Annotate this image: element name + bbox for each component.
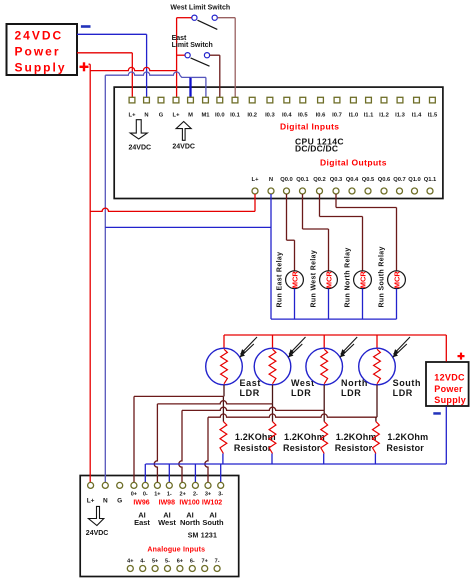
- svg-text:Q1.1: Q1.1: [424, 177, 437, 183]
- svg-text:I0.7: I0.7: [332, 113, 342, 119]
- SM1231 terminal 2-: [192, 482, 198, 488]
- svg-text:Resistor: Resistor: [335, 443, 373, 453]
- PLC input terminal I0.0: [217, 97, 223, 103]
- PLC input terminal L+: [173, 97, 179, 103]
- LDR South (photoresistor): [359, 348, 396, 385]
- svg-text:24VDC: 24VDC: [86, 530, 109, 537]
- svg-text:3+: 3+: [205, 492, 211, 498]
- PLC output terminal Q0.2: [317, 188, 323, 194]
- East limit switch S2 contact A: [185, 53, 190, 58]
- wire: Q0.0 to Run East Relay coil: [286, 194, 288, 240]
- svg-text:Q0.7: Q0.7: [393, 177, 406, 183]
- wire: resistor R2 to 0V rail: [271, 454, 273, 465]
- PLC input terminal L+: [129, 97, 135, 103]
- svg-text:Resistor: Resistor: [234, 443, 272, 453]
- wire: M terminal drop (thick): [189, 77, 191, 97]
- wire: West switch to I0.1: [218, 17, 236, 19]
- resistor R2 1.2KOhm: [269, 422, 276, 454]
- PLC input terminal M1: [203, 97, 209, 103]
- svg-text:Supply: Supply: [15, 61, 67, 75]
- resistor R1 1.2KOhm: [220, 422, 227, 454]
- LDR East (photoresistor): [206, 348, 243, 385]
- light arrows onto East LDR: [241, 337, 258, 354]
- SM1231 terminal 2+: [180, 482, 186, 488]
- wire: +24V branch to switches and L+: [90, 67, 176, 70]
- svg-text:1-: 1-: [167, 492, 172, 498]
- wire: +24V to East switch: [177, 54, 185, 56]
- wire: resistor R3 to 0V rail: [323, 454, 325, 465]
- svg-text:Power: Power: [15, 45, 61, 59]
- 24VDC power supply PS1: [7, 24, 78, 75]
- svg-text:7-: 7-: [215, 558, 220, 564]
- PLC output terminal Q0.4: [349, 188, 355, 194]
- PLC output terminal Q0.7: [397, 188, 403, 194]
- SM1231 terminal L+: [88, 482, 94, 488]
- svg-text:I1.4: I1.4: [412, 113, 422, 119]
- svg-text:7+: 7+: [202, 558, 208, 564]
- svg-text:Q0.1: Q0.1: [296, 177, 309, 183]
- wire: bottom N to 0V rail: [270, 194, 272, 319]
- svg-text:Resistor: Resistor: [283, 443, 321, 453]
- wire: +12V rail: [224, 334, 446, 336]
- wire: North LDR to divider junction: [323, 385, 325, 411]
- svg-text:Run North Relay: Run North Relay: [345, 247, 352, 307]
- LDR North (photoresistor): [306, 348, 343, 385]
- svg-text:Supply: Supply: [434, 395, 466, 405]
- PLC input terminal I1.4: [414, 97, 420, 103]
- svg-text:South: South: [393, 378, 422, 388]
- svg-text:I1.5: I1.5: [428, 113, 438, 119]
- light arrows onto North LDR: [341, 337, 358, 354]
- wire: West LDR to divider junction: [272, 385, 274, 404]
- wire: bottom L+ to +24V rail: [254, 194, 256, 211]
- light arrows onto West LDR: [289, 337, 306, 354]
- PLC input terminal I1.0: [351, 97, 357, 103]
- SM1231 terminal 1-: [166, 482, 172, 488]
- relay coil Run East Relay (MCR): [286, 271, 304, 289]
- svg-text:IW100: IW100: [179, 500, 199, 507]
- svg-text:2-: 2-: [193, 492, 198, 498]
- wire: Run East Relay to 0V rail: [294, 289, 296, 320]
- PLC input terminal I0.7: [334, 97, 340, 103]
- wire: Q0.2 to Run North Relay coil: [319, 194, 321, 217]
- PS1 plus terminal label: [80, 66, 89, 68]
- wire: East switch to I0.0: [210, 54, 220, 56]
- svg-text:6-: 6-: [190, 558, 195, 564]
- PLC input terminal M: [188, 97, 194, 103]
- 24VDC up arrow symbol: [176, 122, 191, 141]
- svg-text:I0.1: I0.1: [230, 113, 240, 119]
- wire: 0V rail to analog terminal 0-: [144, 464, 146, 482]
- svg-text:Q1.0: Q1.0: [408, 177, 421, 183]
- svg-text:I0.4: I0.4: [282, 113, 292, 119]
- PLC output terminal L+: [252, 188, 258, 194]
- PS2 minus terminal label: [433, 412, 441, 415]
- svg-text:1.2KOhm: 1.2KOhm: [235, 432, 276, 442]
- svg-text:1.2KOhm: 1.2KOhm: [336, 432, 377, 442]
- wire: junction to resistor R3: [323, 410, 325, 421]
- svg-text:IW98: IW98: [159, 500, 175, 507]
- PLC input terminal I0.4: [284, 97, 290, 103]
- wire: relay 0V rail: [271, 318, 397, 320]
- light arrows onto South LDR: [394, 337, 411, 354]
- wire: Run South Relay to 0V rail: [396, 289, 398, 320]
- wire: +12V to North LDR: [323, 335, 325, 348]
- wire: junction to resistor R2: [272, 404, 274, 422]
- svg-text:LDR: LDR: [291, 388, 311, 398]
- svg-text:Run West Relay: Run West Relay: [311, 250, 318, 308]
- svg-text:24VDC: 24VDC: [172, 143, 195, 150]
- svg-text:East: East: [240, 378, 261, 388]
- wire: South LDR to divider junction: [376, 385, 378, 418]
- SM1231 terminal 3+: [205, 482, 211, 488]
- PLC input terminal I1.5: [430, 97, 436, 103]
- East limit switch S2 contact B: [204, 53, 209, 58]
- svg-text:MCR: MCR: [392, 271, 401, 289]
- svg-text:North: North: [180, 518, 200, 527]
- svg-text:4-: 4-: [140, 558, 145, 564]
- svg-text:N: N: [103, 497, 108, 504]
- wire: M to M1: [191, 76, 206, 78]
- svg-text:2+: 2+: [180, 492, 186, 498]
- svg-text:MCR: MCR: [358, 271, 367, 289]
- PLC input terminal I0.1: [232, 97, 238, 103]
- svg-text:I0.2: I0.2: [247, 113, 257, 119]
- wire: junction to resistor R1: [222, 396, 224, 421]
- svg-text:0+: 0+: [131, 492, 137, 498]
- wire: PS1 to L+ input terminal: [77, 52, 132, 54]
- wire: junction to resistor R4: [375, 417, 377, 421]
- SM1231 terminal 0+: [131, 482, 137, 488]
- svg-text:Digital Outputs: Digital Outputs: [320, 158, 387, 168]
- SM1231 terminal 0-: [142, 482, 148, 488]
- PLC input terminal I0.6: [318, 97, 324, 103]
- svg-text:DC/DC/DC: DC/DC/DC: [295, 143, 338, 153]
- svg-text:M: M: [188, 113, 193, 119]
- 0V left vertical rail: [104, 75, 106, 482]
- LDR West (photoresistor): [254, 348, 291, 385]
- wire: 0V rail to analog terminal 3-: [220, 464, 222, 482]
- 24VDC down arrow symbol: [130, 120, 147, 139]
- wire: 0V rail to analog terminal 1-: [168, 464, 170, 482]
- svg-text:G: G: [159, 113, 164, 119]
- PS1 minus terminal label: [81, 25, 91, 28]
- svg-text:LDR: LDR: [393, 388, 413, 398]
- PLC input terminal N: [144, 97, 150, 103]
- PLC input terminal I0.2: [249, 97, 255, 103]
- wire: junction to analog input 1+: [157, 401, 272, 404]
- PS2 plus terminal label: [458, 355, 465, 357]
- svg-text:Q0.6: Q0.6: [378, 177, 391, 183]
- PLC input terminal I0.3: [267, 97, 273, 103]
- svg-text:IW102: IW102: [202, 500, 222, 507]
- svg-text:Q0.0: Q0.0: [280, 177, 293, 183]
- resistor R4 1.2KOhm: [373, 422, 380, 454]
- svg-text:0-: 0-: [143, 492, 148, 498]
- wire: junction to analog input 0+: [134, 395, 223, 397]
- svg-text:West: West: [158, 518, 176, 527]
- svg-text:24VDC: 24VDC: [129, 144, 152, 151]
- PLC output terminal Q0.3: [333, 188, 339, 194]
- svg-text:N: N: [269, 177, 273, 183]
- wire: resistor R4 to 0V rail: [374, 454, 376, 465]
- West limit switch S1 arm: [198, 20, 218, 29]
- SM1231 terminal G: [117, 482, 123, 488]
- svg-text:Q0.5: Q0.5: [362, 177, 375, 183]
- resistor R3 1.2KOhm: [321, 422, 328, 454]
- wire: PS1 minus to N input terminal: [77, 33, 147, 35]
- svg-text:Digital Inputs: Digital Inputs: [280, 122, 339, 132]
- CPU 1214C PLC U1: [114, 87, 443, 198]
- relay coil Run West Relay (MCR): [320, 271, 338, 289]
- wire: junction to analog input 3+: [208, 414, 377, 417]
- svg-text:I1.0: I1.0: [349, 113, 359, 119]
- svg-text:Power: Power: [434, 384, 463, 394]
- svg-text:5+: 5+: [152, 558, 158, 564]
- PLC output terminal Q0.1: [300, 188, 306, 194]
- PLC input terminal I1.3: [397, 97, 403, 103]
- wire: junction to analog input 2+: [182, 407, 324, 410]
- svg-text:Analogue Inputs: Analogue Inputs: [147, 547, 205, 554]
- svg-text:I0.5: I0.5: [298, 113, 308, 119]
- wire: Q0.1 to Run West Relay coil: [302, 194, 304, 229]
- svg-text:East: East: [134, 518, 150, 527]
- svg-text:Run East Relay: Run East Relay: [277, 252, 284, 308]
- PLC input terminal I0.5: [300, 97, 306, 103]
- SM1231 terminal N: [102, 482, 108, 488]
- East limit switch S2 arm: [191, 58, 210, 66]
- svg-text:West Limit Switch: West Limit Switch: [170, 4, 230, 11]
- wire: +12V to South LDR: [376, 335, 378, 348]
- svg-text:I1.2: I1.2: [379, 113, 389, 119]
- West limit switch S1 contact B: [212, 15, 217, 20]
- svg-text:Limit Switch: Limit Switch: [172, 42, 213, 49]
- svg-text:Run South Relay: Run South Relay: [379, 246, 386, 307]
- wire: Run West Relay to 0V rail: [328, 289, 330, 320]
- wire: PS1 plus down left rail: [89, 63, 91, 65]
- svg-text:South: South: [202, 518, 224, 527]
- svg-text:12VDC: 12VDC: [434, 373, 465, 383]
- svg-text:I0.3: I0.3: [265, 113, 275, 119]
- svg-text:Resistor: Resistor: [386, 443, 424, 453]
- relay coil Run South Relay (MCR): [388, 271, 406, 289]
- wire: 0V branch to M and M1: [105, 72, 180, 75]
- svg-text:N: N: [144, 113, 148, 119]
- svg-text:M1: M1: [201, 113, 210, 119]
- svg-text:L+: L+: [87, 497, 95, 504]
- svg-text:I1.1: I1.1: [364, 113, 374, 119]
- svg-text:LDR: LDR: [240, 388, 260, 398]
- svg-text:L+: L+: [173, 113, 181, 119]
- wire: 0V rail to analog terminal 2-: [194, 464, 196, 482]
- svg-text:5-: 5-: [165, 558, 170, 564]
- svg-text:Q0.4: Q0.4: [346, 177, 359, 183]
- svg-text:3-: 3-: [218, 492, 223, 498]
- svg-text:IW96: IW96: [133, 500, 149, 507]
- wire: East LDR to divider junction: [223, 385, 225, 397]
- PLC output terminal Q1.0: [412, 188, 418, 194]
- PLC output terminal Q0.6: [381, 188, 387, 194]
- svg-text:L+: L+: [129, 113, 137, 119]
- PLC output terminal N: [268, 188, 274, 194]
- svg-text:6+: 6+: [177, 558, 183, 564]
- svg-text:1.2KOhm: 1.2KOhm: [284, 432, 325, 442]
- svg-text:LDR: LDR: [341, 388, 361, 398]
- wire: 12V 0V rail: [146, 463, 447, 465]
- svg-text:L+: L+: [252, 177, 260, 183]
- svg-text:1+: 1+: [154, 492, 160, 498]
- SM 1231 analog input module U2: [80, 476, 239, 577]
- wire: Run North Relay to 0V rail: [362, 289, 364, 320]
- SM1231 24VDC down arrow symbol: [88, 506, 103, 525]
- svg-text:MCR: MCR: [324, 271, 333, 289]
- svg-text:Q0.3: Q0.3: [330, 177, 343, 183]
- svg-text:1.2KOhm: 1.2KOhm: [387, 432, 428, 442]
- West limit switch S1 contact A: [192, 15, 197, 20]
- wire: resistor R1 to 0V rail: [222, 454, 224, 465]
- svg-text:I1.3: I1.3: [395, 113, 405, 119]
- svg-text:G: G: [117, 497, 122, 504]
- SM1231 terminal 3-: [218, 482, 224, 488]
- PLC output terminal Q1.1: [427, 188, 433, 194]
- PLC input terminal I1.2: [381, 97, 387, 103]
- wire: Q0.3 to Run South Relay coil: [335, 194, 337, 208]
- svg-text:MCR: MCR: [290, 271, 299, 289]
- svg-text:I0.6: I0.6: [316, 113, 326, 119]
- relay coil Run North Relay (MCR): [354, 271, 372, 289]
- SM1231 terminal 1+: [154, 482, 160, 488]
- wire: +24V to West switch: [177, 17, 192, 19]
- wire: +12V to West LDR: [272, 335, 274, 348]
- wire: +12V rail to PS2 plus: [445, 335, 447, 362]
- svg-text:Q0.2: Q0.2: [313, 177, 326, 183]
- svg-text:I0.0: I0.0: [215, 113, 225, 119]
- PLC input terminal G: [158, 97, 164, 103]
- svg-text:SM 1231: SM 1231: [188, 533, 217, 540]
- svg-text:24VDC: 24VDC: [15, 29, 64, 43]
- 12VDC power supply PS2: [426, 362, 469, 406]
- PLC output terminal Q0.5: [365, 188, 371, 194]
- PLC input terminal I1.1: [366, 97, 372, 103]
- wire: +12V to East LDR: [223, 335, 225, 348]
- svg-text:4+: 4+: [127, 558, 133, 564]
- +24V left vertical rail: [89, 64, 91, 482]
- PLC output terminal Q0.0: [284, 188, 290, 194]
- wire: 0V rail to PS2 minus: [445, 407, 447, 465]
